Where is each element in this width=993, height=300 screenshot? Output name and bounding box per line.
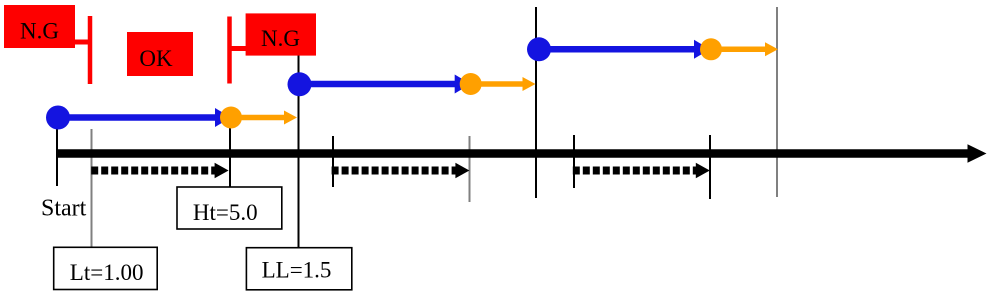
svg-text:Ht=5.0: Ht=5.0 — [193, 200, 258, 225]
svg-text:Lt=1.00: Lt=1.00 — [70, 260, 144, 285]
svg-text:Start: Start — [41, 196, 87, 222]
svg-text:N.G: N.G — [261, 26, 300, 51]
svg-text:OK: OK — [139, 46, 173, 71]
svg-text:LL=1.5: LL=1.5 — [262, 258, 332, 283]
svg-text:N.G: N.G — [20, 19, 59, 44]
